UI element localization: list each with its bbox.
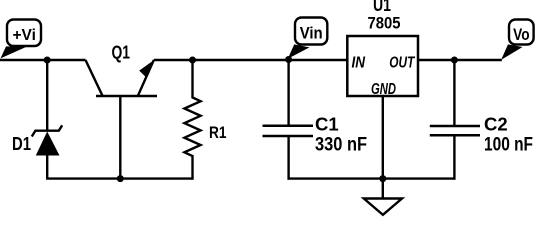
node junction dot at D1 top [44, 57, 51, 64]
wire Q1 emitter to U1 IN (node Vin) [154, 59, 347, 61]
wire bottom-left rail [46, 177, 192, 179]
ground symbol [364, 179, 402, 215]
svg-text:Vin: Vin [300, 25, 323, 43]
capacitor C1 [263, 60, 368, 180]
svg-text:R1: R1 [209, 124, 227, 142]
node junction dot at C2 top [451, 57, 458, 64]
node junction dot GND/rail [379, 175, 386, 182]
svg-text:C1: C1 [315, 114, 339, 135]
svg-text:Vo: Vo [513, 26, 530, 44]
svg-text:100 nF: 100 nF [484, 134, 533, 155]
node junction dot at Vin / C1 [285, 56, 292, 63]
node junction dot at R1 top [189, 57, 196, 64]
svg-text:Q1: Q1 [112, 43, 131, 63]
flag Vin [288, 18, 328, 59]
svg-text:D1: D1 [12, 134, 31, 154]
pin label GND [371, 81, 396, 98]
pin label IN [352, 54, 366, 71]
svg-text:C2: C2 [484, 114, 508, 135]
flag Vo [501, 20, 533, 60]
svg-text:OUT: OUT [389, 54, 415, 71]
regulator U1 [347, 0, 418, 96]
pin label OUT [389, 54, 415, 71]
wire U1 GND pin [382, 96, 384, 179]
wire bottom-right rail [288, 177, 456, 179]
resistor R1 [184, 60, 226, 180]
svg-text:330 nF: 330 nF [315, 134, 367, 155]
flag +Vi [1, 20, 42, 59]
wire U1 OUT to Vo [418, 59, 502, 61]
wire +Vi to Q1 collector [0, 59, 86, 61]
transistor Q1 [86, 43, 158, 96]
node junction dot base/rail [117, 175, 124, 182]
svg-text:+Vi: +Vi [12, 27, 36, 44]
capacitor C2 [430, 60, 533, 180]
svg-text:7805: 7805 [368, 14, 401, 33]
wire Q1 base lead [119, 96, 121, 179]
zener diode D1 [12, 60, 62, 179]
svg-text:GND: GND [371, 81, 396, 98]
svg-text:IN: IN [352, 54, 366, 71]
